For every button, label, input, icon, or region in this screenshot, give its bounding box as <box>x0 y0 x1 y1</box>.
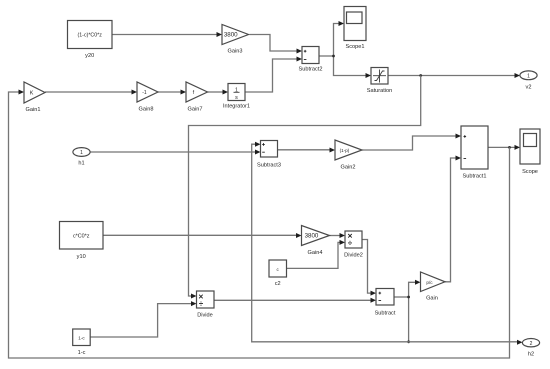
svg-text:Divide: Divide <box>197 313 213 319</box>
arrowhead into Gain3 <box>217 32 223 37</box>
wire y10 to Gain4 <box>103 234 297 236</box>
svg-text:Subtract: Subtract <box>375 311 396 317</box>
svg-text:p/c: p/c <box>426 280 433 285</box>
gain Gain7 <box>186 82 208 102</box>
arrowhead into Gain7 <box>181 90 187 95</box>
sum block Subtract <box>376 289 394 306</box>
wire y20 to Gain3 <box>112 34 217 36</box>
wire Divide2 output down to Subtract plus input <box>362 240 371 294</box>
arrowhead into Subtract1 plus <box>456 134 462 139</box>
svg-text:(1-c)*C0*z: (1-c)*C0*z <box>77 32 102 38</box>
svg-text:1: 1 <box>527 74 530 80</box>
svg-text:Saturation: Saturation <box>367 88 393 94</box>
wire c2 to Divide2 divide input <box>287 242 341 268</box>
wire Saturation junction down and left to Divide x input <box>189 76 421 297</box>
arrowhead into Subtract2 plus <box>297 49 303 54</box>
gain Gain3 <box>222 25 249 45</box>
junction at Subtract1 output <box>508 146 511 149</box>
arrowhead into Scope <box>515 145 521 150</box>
junction at Saturation output <box>419 74 422 77</box>
svg-text:Gain4: Gain4 <box>308 250 323 256</box>
junction at Subtract2 output <box>332 55 335 58</box>
svg-text:Scope1: Scope1 <box>346 44 365 50</box>
wire Divide output to Subtract minus input <box>214 299 371 301</box>
scope block Scope <box>520 129 540 164</box>
wire Subtract2 output to junction <box>319 55 334 57</box>
arrowhead into Divide divide <box>191 301 197 306</box>
wire Subtract1 output to Scope <box>488 146 515 148</box>
divide block Divide2 <box>345 231 362 248</box>
svg-text:y10: y10 <box>77 254 86 260</box>
wire Saturation to v2 <box>388 75 515 77</box>
svg-text:Gain7: Gain7 <box>188 107 203 113</box>
svg-text:Subtract3: Subtract3 <box>257 163 281 169</box>
svg-text:Integrator1: Integrator1 <box>223 104 250 110</box>
svg-text:Subtract1: Subtract1 <box>463 174 487 180</box>
arrowhead into Gain <box>415 280 421 285</box>
arrowhead into v2 <box>515 73 521 78</box>
wire junction up to Gain input <box>409 282 416 297</box>
output port h2 <box>522 339 539 348</box>
constant block y20 <box>68 21 113 49</box>
svg-text:1-c: 1-c <box>78 350 86 356</box>
junction on h2 line <box>407 340 410 343</box>
wire h2 net right to h2 port <box>409 341 517 343</box>
scope block Scope1 <box>344 7 366 41</box>
gain Gain1 <box>24 82 45 103</box>
svg-text:h2: h2 <box>528 352 534 358</box>
wire 1-c to Divide divide input <box>90 304 191 337</box>
svg-text:s: s <box>235 95 238 101</box>
wire h1 to Subtract3 minus input <box>90 151 256 153</box>
wire junction down to Saturation <box>334 56 367 76</box>
arrowhead into h2 <box>517 340 523 345</box>
svg-text:Gain2: Gain2 <box>341 165 356 171</box>
svg-text:Gain: Gain <box>426 296 438 302</box>
arrowhead into Subtract1 minus <box>456 156 462 161</box>
wire Gain output up to Subtract1 minus input <box>445 158 456 282</box>
wire junction down to h2 line <box>408 297 410 342</box>
svg-text:3800: 3800 <box>305 233 319 240</box>
arrowhead into Divide x <box>191 294 197 299</box>
svg-text:c2: c2 <box>275 281 281 287</box>
svg-text:y20: y20 <box>85 53 94 59</box>
output port v2 <box>520 71 537 80</box>
svg-text:Gain8: Gain8 <box>139 107 154 113</box>
junction at Subtract output <box>407 296 410 299</box>
arrowhead into Gain8 <box>132 90 138 95</box>
integrator block Integrator1 <box>228 84 245 102</box>
wire Integrator1 to Subtract2 minus input <box>245 59 297 92</box>
svg-text:2: 2 <box>530 341 533 347</box>
constant block c2 <box>269 260 287 277</box>
sum block Subtract1 <box>461 126 488 169</box>
svg-text:3800: 3800 <box>224 32 238 39</box>
svg-text:Divide2: Divide2 <box>344 253 363 259</box>
sum block Subtract2 <box>302 47 319 64</box>
arrowhead into Integrator1 <box>223 90 229 95</box>
arrowhead into Divide2 x <box>340 233 346 238</box>
wire Gain1 to Gain8 <box>45 91 132 93</box>
arrowhead into Gain1 <box>19 90 25 95</box>
divide block Divide <box>197 291 215 308</box>
wire h2 net left and up to Subtract3 plus input <box>252 144 409 342</box>
sum block Subtract3 <box>261 141 278 158</box>
svg-text:K: K <box>30 91 34 97</box>
arrowhead into Gain4 <box>296 233 302 238</box>
wire Subtract1 output feedback down left and up to Gain1 <box>9 92 510 358</box>
arrowhead into Subtract plus <box>371 291 377 296</box>
svg-text:(1-p): (1-p) <box>340 148 350 153</box>
wire Subtract3 to Gain2 <box>278 149 331 151</box>
wire Gain8 to Gain7 <box>158 91 181 93</box>
arrowhead into Subtract minus <box>371 298 377 303</box>
gain Gain2 <box>335 140 362 160</box>
wire junction up to Scope1 <box>334 24 340 57</box>
svg-text:1-c: 1-c <box>78 335 85 340</box>
wire Subtract output to junction <box>394 296 409 298</box>
arrowhead into Subtract3 minus <box>255 150 261 155</box>
svg-text:-1: -1 <box>142 90 147 96</box>
svg-text:v2: v2 <box>526 85 532 91</box>
svg-text:Gain3: Gain3 <box>228 49 243 55</box>
arrowhead into Subtract3 plus <box>255 142 261 147</box>
svg-text:Subtract2: Subtract2 <box>299 67 323 73</box>
svg-text:Scope: Scope <box>522 169 538 175</box>
gain Gain8 <box>137 82 158 102</box>
arrowhead into Subtract2 minus <box>297 57 303 62</box>
wire Gain2 to Subtract1 plus input <box>362 136 456 150</box>
arrowhead into Saturation <box>366 73 372 78</box>
svg-text:Gain1: Gain1 <box>26 107 41 113</box>
arrowhead into Scope1 <box>339 21 345 26</box>
input port h1 <box>73 148 90 157</box>
gain Gain4 <box>302 226 330 246</box>
svg-text:h1: h1 <box>78 161 84 167</box>
svg-text:c*C0*z: c*C0*z <box>73 234 90 240</box>
arrowhead into Gain2 <box>330 148 336 153</box>
wire Gain7 to Integrator1 <box>208 91 224 93</box>
wire Gain4 to Divide2 x input <box>330 235 341 237</box>
wire Gain3 to Subtract2 plus input <box>250 35 298 52</box>
constant block y10 <box>60 222 104 250</box>
svg-text:1: 1 <box>80 150 83 156</box>
arrowhead into Divide2 divide <box>340 240 346 245</box>
saturation block Saturation <box>371 68 388 85</box>
gain Gain <box>421 272 446 292</box>
constant block 1-c <box>73 329 91 346</box>
